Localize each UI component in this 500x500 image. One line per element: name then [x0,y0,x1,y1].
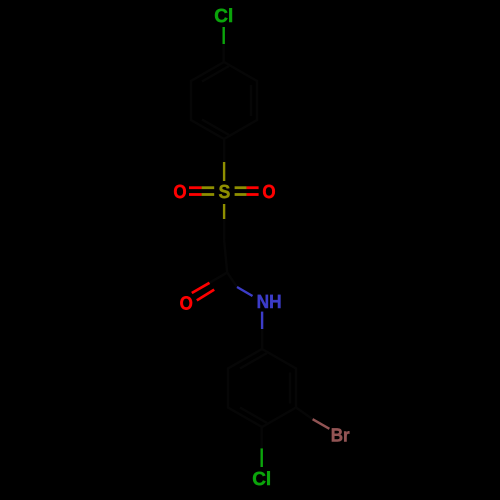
double bond S=O right, line 1 oxygen half [247,186,259,189]
double bond S=O left, line 1 oxygen half [189,186,202,189]
svg-text:NH: NH [257,292,282,313]
bond C4'-Cl2 chlorine half [261,448,263,467]
double bond C=O carbonyl, line 1 oxygen half [192,283,210,293]
bond C4-S carbon half (invisible) [223,139,225,162]
benzene ring 2 (bromo-chlorophenyl, carbon bonds near-black) [228,349,296,427]
bond C4-S sulfur half [223,162,225,181]
double bond S=O left, line 1 sulfur half [202,186,215,189]
bond C3'-Br carbon half (invisible) [296,408,313,420]
svg-text:O: O [173,182,186,203]
double bond S=O right, line 1 sulfur half [235,186,247,189]
double bond C=O carbonyl, line 1 carbon half (invisible) [210,273,228,283]
double bond C=O carbonyl, line 2 oxygen half [197,290,214,301]
bond CH2-C(=O) (invisible) [224,240,227,273]
bond N-C1' nitrogen half [261,312,263,329]
benzene ring 1 (chlorophenyl, carbon bonds near-black) [191,62,257,139]
svg-text:S: S [219,182,231,203]
double bond S=O right, line 2 oxygen half [247,193,259,196]
bond S-CH2 sulfur half [223,204,225,219]
double bond S=O left, line 2 sulfur half [202,193,215,196]
svg-text:Cl: Cl [214,6,233,27]
svg-text:Br: Br [331,426,351,447]
bond N-C1' carbon half (invisible) [261,329,263,349]
bond C4'-Cl2 carbon half (invisible) [261,427,263,448]
bond C3'-Br bromine half [313,419,330,429]
double bond S=O left, line 2 oxygen half [189,193,202,196]
bond C1-Cl1 chlorine half [222,27,224,44]
svg-text:O: O [262,182,275,203]
bond C1-Cl1 carbon half (invisible) [222,44,224,62]
bond C(=O)-N nitrogen half [237,287,253,296]
svg-text:O: O [180,293,193,314]
bond C(=O)-N carbon half (invisible) [227,273,237,287]
svg-text:Cl: Cl [252,469,271,490]
bond S-CH2 carbon half (invisible) [223,219,225,240]
double bond S=O right, line 2 sulfur half [235,193,247,196]
